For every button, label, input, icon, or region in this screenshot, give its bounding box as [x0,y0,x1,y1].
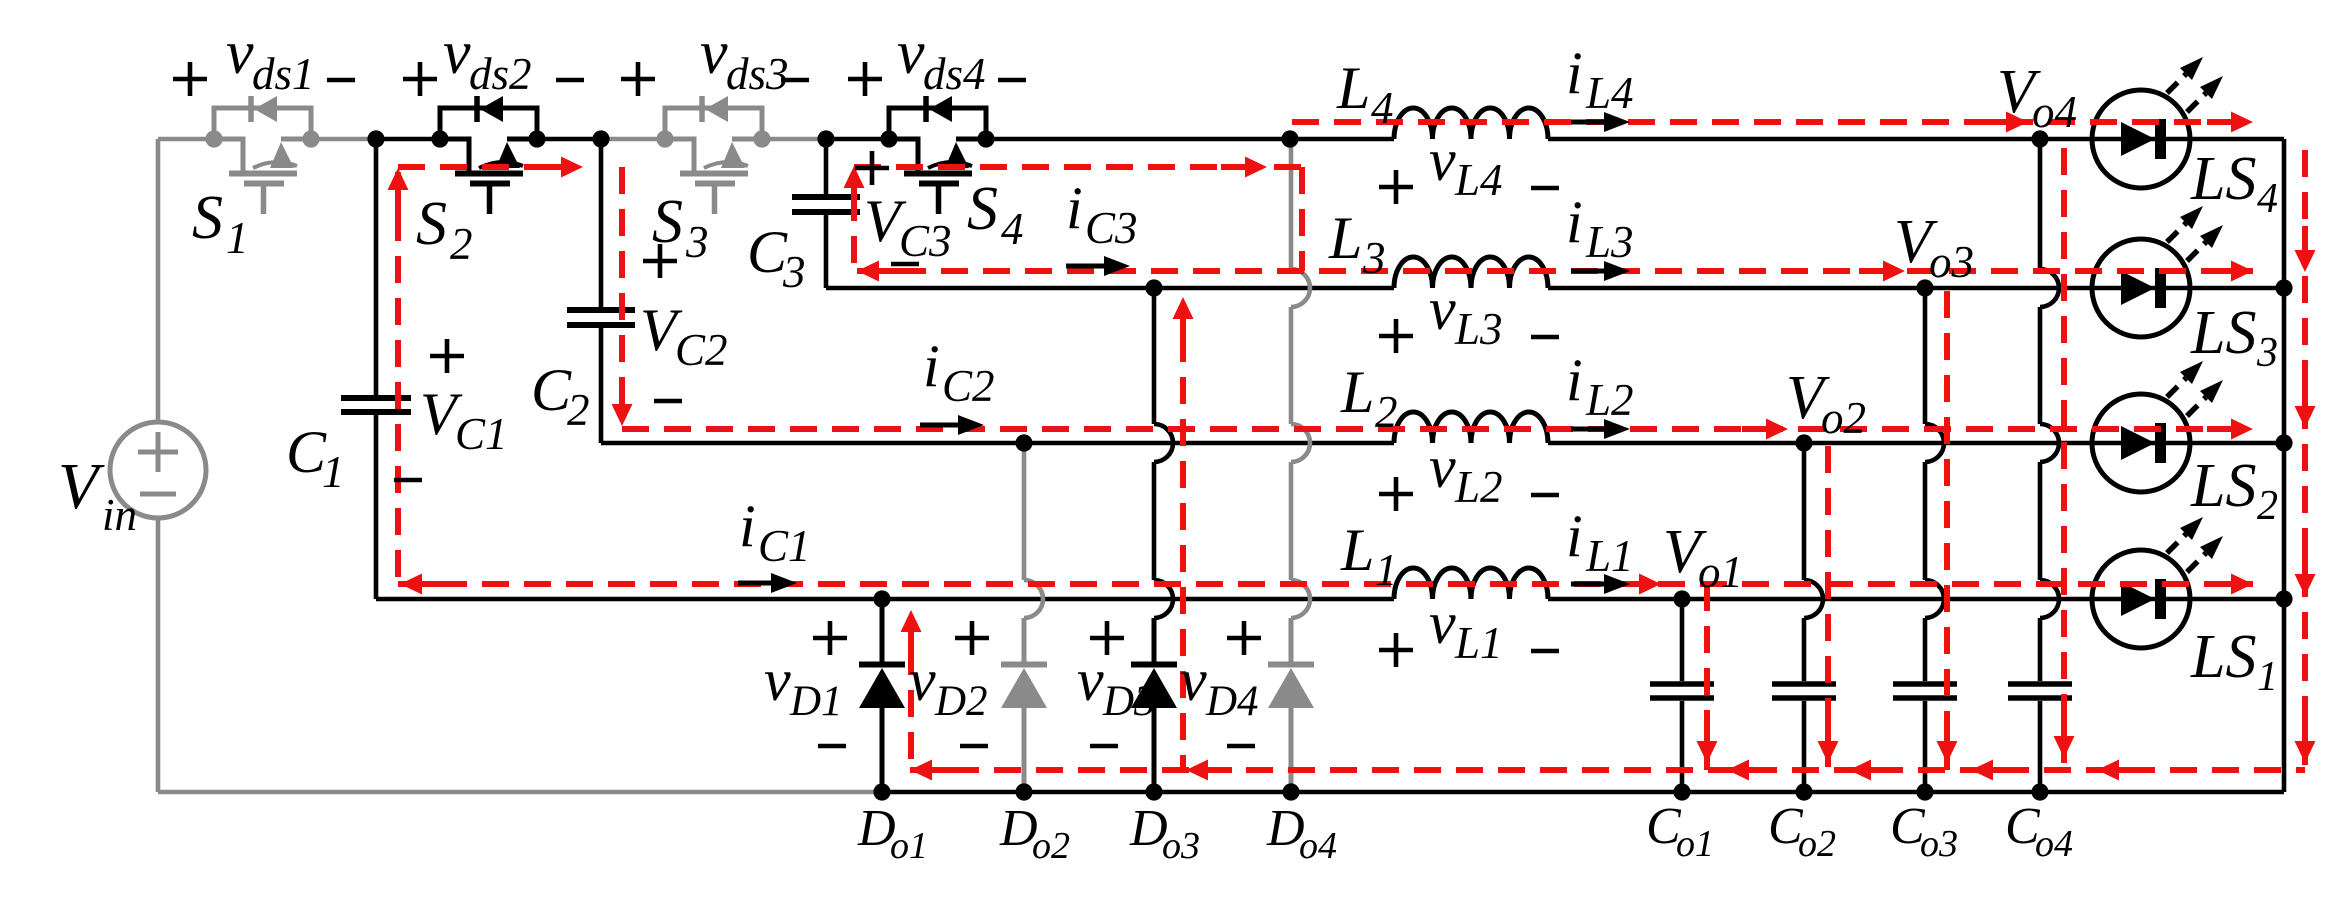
svg-text:LS: LS [2190,299,2256,367]
svg-text:v: v [1180,647,1207,713]
svg-text:D4: D4 [1205,678,1259,725]
label VC2 [643,259,677,264]
node S3 source [753,130,770,147]
svg-text:o1: o1 [890,825,928,867]
node Do2 bottom [1015,783,1032,800]
LED string LS4 [2092,90,2190,188]
svg-text:4: 4 [1001,204,1024,254]
node Do3 bottom [1145,783,1162,800]
arrow iL4 direction [1571,120,1610,125]
svg-text:S: S [192,184,223,252]
svg-text:v: v [897,19,925,87]
transistor S2 [440,96,537,214]
transistor S3 [665,96,762,214]
red current path: Co3 loop vertical [1944,291,1950,770]
capacitor C2 [599,139,604,307]
svg-text:LS: LS [2190,623,2256,691]
node LS3 out [2275,279,2292,296]
svg-text:i: i [1566,40,1583,106]
wire: bottom gray return rail [158,790,882,795]
node C1 top [367,130,384,147]
arrow iL2 direction [1571,427,1610,432]
node Co1 bottom [1673,783,1690,800]
svg-text:LS: LS [2190,145,2256,213]
svg-text:L1: L1 [1454,618,1503,668]
svg-text:L: L [1336,55,1370,121]
label vL1 [1379,648,1413,653]
svg-text:i: i [1566,503,1583,569]
red current path: Co4 loop vertical [2061,148,2067,770]
svg-text:LS: LS [2190,452,2256,520]
svg-text:4: 4 [2257,176,2278,222]
svg-text:2: 2 [450,219,473,269]
svg-text:C: C [286,419,327,485]
svg-text:v: v [764,647,791,713]
arrow iC1 direction [738,581,777,586]
svg-text:D1: D1 [789,678,843,725]
svg-text:C1: C1 [455,409,508,459]
svg-text:1: 1 [226,213,249,263]
node Vo4 [2031,130,2048,147]
node Do1 top [873,590,890,607]
node S2 source [528,130,545,147]
node C2 top [592,130,609,147]
node Do4 bottom [1282,783,1299,800]
inductor L3 [1394,257,1548,288]
red current path: Co2 loop vertical [1825,446,1831,770]
red current path: through S2 [398,164,557,170]
svg-text:S: S [416,190,447,258]
svg-text:L1: L1 [1585,531,1634,581]
label vD2 [955,636,989,641]
red current path: row L3 (iC3/iL3) [857,268,2253,274]
node S1 source [302,130,319,147]
svg-text:ds2: ds2 [469,49,532,99]
svg-text:i: i [1566,189,1583,255]
svg-text:v: v [909,647,936,713]
wire: top rail gray segments [158,137,214,142]
svg-text:v: v [1429,276,1456,342]
diode Do2 branch (off, gray) [1022,443,1027,580]
diode Do3 [1152,618,1157,662]
inductor L1 [1394,568,1548,599]
svg-text:L4: L4 [1585,68,1634,118]
output capacitor Co4 [2038,139,2043,269]
output capacitor Co2 [1802,443,1807,580]
wire: right-side rail [2282,139,2287,792]
svg-text:o4: o4 [2032,87,2077,137]
node LS1 out [2275,590,2292,607]
svg-text:v: v [1429,434,1456,500]
label vds4 [848,77,882,82]
red current path: C3 loop left vertical [851,194,857,271]
node Co2 bottom [1795,783,1812,800]
svg-text:v: v [700,19,728,87]
node Do2 top [1015,434,1032,451]
node S3 drain [656,130,673,147]
svg-text:C3: C3 [899,216,952,266]
svg-text:V: V [58,450,105,523]
node Do3 top [1145,279,1162,296]
wire: L3 rail (row 2) [826,286,1394,291]
LED string LS1 [2092,550,2190,648]
node Co3 bottom [1916,783,1933,800]
wire: L1 rail (row 4) [376,597,1394,602]
svg-text:D2: D2 [934,678,988,725]
diode Do4 branch (off, gray) [1289,139,1294,269]
svg-text:o3: o3 [1929,237,1974,287]
svg-text:v: v [1429,590,1456,656]
label vds2 [403,77,437,82]
label VC3 [855,166,889,171]
label vL2 [1379,492,1413,497]
diode Do1 [880,599,885,662]
red current path: LED right return vertical [2302,150,2308,770]
LED string LS3 [2092,239,2190,337]
red current path: row L4 (iL4) [1292,119,2253,125]
svg-text:o3: o3 [1920,823,1958,865]
svg-text:2: 2 [2257,483,2278,529]
capacitor C3 [824,139,829,194]
svg-text:D3: D3 [1102,678,1156,725]
red current path: row L2 (iC2/iL2) [622,426,2253,432]
svg-text:3: 3 [2256,330,2278,376]
svg-text:L: L [1340,359,1374,425]
inductor L4 [1394,108,1548,139]
label vD3 [1090,636,1124,641]
node S4 drain [880,130,897,147]
node S2 drain [431,130,448,147]
red current path: through S4 [854,164,1302,170]
red current path: bottom return [910,767,2305,773]
red current path: row L1 (iC1/iL1) [398,581,2253,587]
capacitor C1 [374,139,379,395]
node C3 top [817,130,834,147]
label VC1 [430,354,464,359]
svg-text:ds4: ds4 [923,49,986,99]
output capacitor Co3 [1923,288,1928,424]
diode Do3 branch [1152,288,1157,424]
svg-text:C3: C3 [1085,203,1138,253]
red current path: Do1 vertical [908,648,914,770]
transistor S1 [214,96,311,214]
svg-text:C: C [747,219,788,285]
node Do1 bottom [873,783,890,800]
svg-text:L4: L4 [1454,155,1503,205]
svg-text:v: v [226,19,254,87]
svg-text:L2: L2 [1585,375,1634,425]
wire: top rail black segments [376,137,440,142]
label vL3 [1379,334,1413,339]
svg-text:L3: L3 [1454,304,1503,354]
svg-text:L3: L3 [1585,217,1634,267]
svg-text:C: C [531,357,572,423]
LED string LS2 [2092,394,2190,492]
label vD1 [813,636,847,641]
node S4 source [977,130,994,147]
svg-text:o1: o1 [1676,823,1714,865]
node LS2 out [2275,434,2292,451]
svg-text:C2: C2 [942,361,995,411]
label vds3 [621,77,655,82]
svg-text:v: v [1429,127,1456,193]
svg-text:v: v [443,19,471,87]
red current path: C2 vertical [619,167,625,412]
svg-text:3: 3 [782,247,806,297]
svg-text:o2: o2 [1798,823,1836,865]
svg-text:3: 3 [1362,233,1386,283]
svg-text:2: 2 [567,385,590,435]
svg-text:o4: o4 [1299,825,1337,867]
node Vo1 [1673,590,1690,607]
svg-text:L: L [1328,205,1362,271]
arrow iC2 direction [920,423,964,428]
arrow iC3 direction [1066,264,1110,269]
arrow iL1 direction [1571,582,1610,587]
svg-text:in: in [102,490,137,540]
voltage source Vin [110,422,206,518]
node Vo3 [1916,279,1933,296]
label vD4 [1227,636,1261,641]
svg-text:C1: C1 [758,521,811,571]
node Do4 top [1281,130,1298,147]
wire: L2 rail (row 3) [601,441,1394,446]
arrow iL3 direction [1571,269,1610,274]
svg-text:o4: o4 [2035,823,2073,865]
transistor S4 [889,96,986,214]
svg-text:4: 4 [1371,83,1394,133]
svg-text:i: i [1566,347,1583,413]
svg-text:3: 3 [685,217,709,267]
inductor L2 [1394,412,1548,443]
svg-text:ds3: ds3 [726,49,789,99]
svg-text:S: S [967,175,998,243]
svg-text:2: 2 [1375,387,1398,437]
red current path: C1 loop vertical [395,172,401,584]
red current path: Co1 loop vertical [1704,584,1710,770]
red current path: C3 loop right vertical [1299,167,1305,271]
svg-text:o3: o3 [1162,825,1200,867]
svg-text:C2: C2 [675,325,728,375]
node Co4 bottom [2031,783,2048,800]
red current path: Do3 vertical [1180,335,1186,770]
diode Do2 [1022,618,1027,662]
wire: input source left column (gray) [156,139,161,422]
svg-text:i: i [1066,175,1083,241]
svg-text:o2: o2 [1821,393,1866,443]
diode Do4 [1289,618,1294,662]
svg-text:1: 1 [1375,545,1398,595]
svg-text:i: i [739,493,756,559]
label vds1 [173,77,207,82]
svg-text:1: 1 [322,447,345,497]
svg-text:i: i [923,333,940,399]
svg-text:o2: o2 [1032,825,1070,867]
svg-text:v: v [1077,647,1104,713]
node S1 drain [205,130,222,147]
wire: bottom black rail [882,790,2284,795]
svg-text:ds1: ds1 [252,49,315,99]
svg-text:L2: L2 [1454,462,1503,512]
svg-text:1: 1 [2257,654,2278,700]
svg-text:o1: o1 [1698,547,1743,597]
output capacitor Co1 [1680,599,1685,681]
svg-text:L: L [1340,517,1374,583]
label vL4 [1379,185,1413,190]
node Vo2 [1795,434,1812,451]
svg-text:S: S [652,188,683,256]
